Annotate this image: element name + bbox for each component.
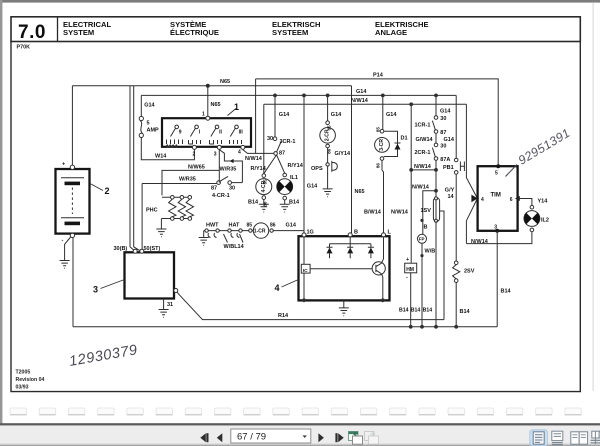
- ground below alternator: [339, 300, 349, 315]
- wire switch pin3 down: [218, 150, 220, 183]
- timer module TIM: [496, 164, 500, 168]
- svg-text:B14: B14: [411, 308, 421, 314]
- switch contact 9: [175, 125, 179, 129]
- svg-text:3: 3: [93, 285, 98, 295]
- svg-text:3: 3: [494, 225, 497, 231]
- svg-text:HM: HM: [406, 267, 414, 273]
- svg-text:3: 3: [214, 151, 217, 157]
- svg-text:AMP: AMP: [147, 128, 160, 134]
- node G14 at 2-CR: [326, 94, 330, 98]
- relay coil 4-CR: [262, 174, 266, 178]
- wire W14 fuse to switch pin 2: [141, 138, 194, 160]
- svg-text:N/W14: N/W14: [391, 210, 409, 216]
- wire IL2 return N/W14: [466, 232, 532, 244]
- ground below 4-CR: [259, 199, 269, 212]
- svg-text:SYSTEEM: SYSTEEM: [272, 28, 308, 37]
- svg-text:N65: N65: [211, 102, 221, 108]
- ground below PHC: [156, 219, 166, 237]
- svg-text:85: 85: [247, 223, 253, 229]
- wire TIM pin 3 to ground bus: [496, 231, 498, 327]
- wire N65 to alternator B terminal: [351, 86, 353, 233]
- toolbar back button: [217, 433, 223, 442]
- node fuel line tap: [434, 189, 438, 193]
- svg-text:N/W14: N/W14: [471, 239, 489, 245]
- svg-text:G14: G14: [444, 137, 455, 143]
- svg-text:ANLAGE: ANLAGE: [375, 28, 407, 37]
- wire switch pin4 to 3CR-1 87: [243, 150, 274, 154]
- svg-text:87A: 87A: [440, 157, 450, 163]
- ground below IL1: [280, 200, 290, 212]
- svg-text:30: 30: [229, 186, 235, 192]
- svg-text:1SV: 1SV: [421, 208, 432, 214]
- contact column 1CR-1 / 2CR-1: [435, 95, 437, 115]
- svg-text:4-CR-1: 4-CR-1: [212, 193, 230, 199]
- svg-text:N/W14: N/W14: [414, 164, 432, 170]
- svg-text:2-CR: 2-CR: [325, 129, 331, 141]
- viewer left edge strip: [0, 0, 2, 424]
- wire B/W14 3-CR to alternator L: [382, 160, 384, 233]
- wire G14 bus: [141, 94, 456, 96]
- battery B1: [72, 236, 74, 327]
- toolbar background: [0, 426, 600, 446]
- svg-text:N/W14: N/W14: [351, 98, 369, 104]
- svg-text:Revision 04: Revision 04: [16, 377, 45, 383]
- heater PHC resistor bank: [161, 197, 190, 218]
- svg-text:D1: D1: [401, 136, 408, 142]
- svg-text:B/W14: B/W14: [364, 210, 382, 216]
- wire HM riser N/W14: [410, 104, 412, 262]
- svg-text:G14: G14: [440, 108, 451, 114]
- wire R/Y14 to 4-CR coil: [264, 155, 277, 174]
- wire N/W65 branch to PHC: [162, 170, 219, 195]
- svg-text:2CR-1: 2CR-1: [415, 150, 431, 156]
- wire G/Y14 PB1 to 2SV: [455, 174, 457, 261]
- svg-text:7.0: 7.0: [18, 22, 46, 43]
- switch contact I: [195, 125, 199, 129]
- svg-text:B14: B14: [248, 200, 259, 206]
- svg-text:6: 6: [510, 197, 513, 203]
- pointer line for 1: [228, 109, 237, 116]
- wire W/R35 drop to starter: [141, 184, 143, 250]
- svg-text:G14: G14: [286, 223, 297, 229]
- ground at HWT line: [199, 231, 209, 246]
- svg-text:9: 9: [179, 130, 182, 136]
- solenoid 1SV: [433, 198, 439, 222]
- diode D1 bypass loop: [384, 131, 398, 156]
- ignition switch SW1 body: [162, 118, 251, 147]
- alternator transistor: [372, 262, 385, 275]
- header divider: [57, 17, 59, 42]
- wire pin3 jog via arrow to contact input: [219, 150, 242, 183]
- toolbar page number field: [231, 429, 311, 443]
- 1SV side tap to R14: [440, 211, 444, 320]
- svg-text:30: 30: [440, 116, 446, 122]
- svg-text:85: 85: [376, 127, 381, 133]
- svg-text:G14: G14: [307, 184, 318, 190]
- svg-text:T2005: T2005: [16, 370, 31, 376]
- toolbar previous page button: [200, 433, 206, 442]
- node HM on bus: [409, 325, 413, 329]
- view mode single page icon selected: [530, 430, 548, 446]
- svg-text:B: B: [424, 224, 428, 230]
- oil pressure switch OPS: [327, 148, 329, 163]
- svg-text:N/W14: N/W14: [245, 156, 263, 162]
- svg-text:HAT: HAT: [229, 223, 241, 229]
- wire G14 to PB1: [455, 95, 457, 158]
- svg-text:14: 14: [448, 194, 455, 200]
- svg-text:PB1: PB1: [443, 165, 454, 171]
- wire N65 top bus: [72, 85, 351, 87]
- svg-text:4-CR: 4-CR: [261, 180, 267, 192]
- svg-text:B14: B14: [289, 200, 300, 206]
- svg-text:N/W65: N/W65: [188, 164, 205, 170]
- wire battery negative to ground: [65, 237, 71, 260]
- node 2SV on bus: [454, 325, 458, 329]
- svg-text:+: +: [406, 257, 409, 263]
- svg-text:G14: G14: [331, 112, 342, 118]
- svg-text:HWT: HWT: [206, 223, 219, 229]
- node FP on bus: [420, 325, 424, 329]
- lamp IL1: [283, 173, 287, 177]
- toolbar previous view icon: [349, 432, 363, 445]
- svg-text:W14: W14: [155, 154, 167, 160]
- starter motor M1: [125, 252, 175, 298]
- svg-text:P14: P14: [373, 73, 384, 79]
- view mode two-page icon: [571, 432, 588, 444]
- svg-text:31: 31: [167, 302, 173, 308]
- wire N/W14 to TIM pin 4 connector: [466, 104, 477, 243]
- svg-text:3-CR: 3-CR: [379, 139, 385, 151]
- svg-text:G/W14: G/W14: [416, 137, 434, 143]
- lamp IL2: [530, 205, 534, 209]
- relay coil 1-CR: [249, 229, 252, 232]
- push button PB1: [454, 158, 458, 162]
- svg-text:IL1: IL1: [290, 175, 298, 181]
- node N65 junction at switch feed: [206, 84, 210, 88]
- toolbar next page button: [335, 433, 337, 442]
- wire to FP drop: [423, 191, 436, 235]
- svg-text:G/Y: G/Y: [445, 187, 455, 193]
- node 1SV on bus: [434, 325, 438, 329]
- alternator IC box: [301, 264, 310, 273]
- svg-text:4: 4: [238, 149, 241, 155]
- svg-text:N65: N65: [355, 189, 365, 195]
- svg-text:87: 87: [279, 151, 285, 157]
- relay contact 4-CR-1: [217, 181, 221, 185]
- ground bus B14: [73, 326, 497, 328]
- thermo switch HWT: [205, 229, 208, 232]
- svg-text:5: 5: [495, 171, 498, 177]
- wire 50(ST) drop to starter: [134, 86, 141, 252]
- svg-text:ÉLECTRIQUE: ÉLECTRIQUE: [170, 28, 219, 37]
- wire 1-CR 86 to 1G riser: [273, 230, 304, 232]
- svg-text:SYSTEM: SYSTEM: [63, 28, 94, 37]
- svg-text:W/BL14: W/BL14: [224, 244, 245, 250]
- wire 1SV to ground bus: [435, 221, 437, 326]
- svg-text:86: 86: [376, 163, 381, 169]
- node G14 at 3-CR: [381, 94, 385, 98]
- svg-text:-: -: [406, 275, 408, 281]
- svg-text:03/93: 03/93: [16, 385, 29, 391]
- svg-text:+: +: [62, 161, 65, 167]
- svg-text:1-CR: 1-CR: [254, 229, 266, 235]
- thermo switch HAT: [228, 229, 231, 232]
- wire N/W14 link line: [411, 169, 436, 171]
- svg-text:IC: IC: [303, 268, 308, 274]
- view mode continuous icon: [552, 431, 563, 444]
- wire 30(B) battery to starter: [130, 86, 135, 252]
- toolbar forward button: [318, 433, 324, 442]
- page right edge faint line: [593, 3, 594, 391]
- relay coil 2-CR: [327, 95, 329, 121]
- svg-text:W/B: W/B: [425, 249, 436, 255]
- svg-text:30: 30: [267, 136, 273, 142]
- svg-text:B: B: [354, 229, 358, 235]
- svg-text:4: 4: [481, 197, 484, 203]
- svg-text:B14: B14: [460, 309, 471, 315]
- svg-text:1: 1: [234, 102, 239, 112]
- wire starter pin 31 to ground: [159, 299, 169, 318]
- thumbnail strip dashes: [10, 408, 581, 415]
- switch pin 1 terminal: [206, 116, 210, 120]
- node N/W14 tap: [434, 168, 438, 172]
- svg-text:-: -: [62, 238, 64, 244]
- svg-text:G14: G14: [386, 112, 397, 118]
- node G14 at 1G riser: [302, 94, 306, 98]
- svg-text:3CR-1: 3CR-1: [280, 139, 296, 145]
- pointer line for 4: [282, 280, 299, 288]
- svg-text:86: 86: [262, 201, 267, 207]
- svg-text:87: 87: [211, 186, 217, 192]
- svg-text:30(B): 30(B): [114, 246, 128, 252]
- toolbar next view icon disabled: [365, 432, 379, 445]
- toolbar separator: [0, 423, 600, 425]
- wire P14 riser from key circuit: [255, 79, 257, 153]
- svg-text:4: 4: [275, 283, 280, 293]
- svg-text:N65: N65: [220, 79, 230, 85]
- svg-text:86: 86: [270, 223, 276, 229]
- svg-text:W/R35: W/R35: [220, 167, 237, 173]
- svg-text:86: 86: [327, 148, 332, 154]
- svg-text:G/Y14: G/Y14: [335, 151, 352, 157]
- pointer line for 2: [90, 184, 103, 191]
- wire G14 riser to alternator 1G: [303, 95, 305, 233]
- pointer line for 3: [101, 280, 125, 289]
- svg-text:R14: R14: [278, 313, 289, 319]
- switch position ticks: [167, 140, 242, 145]
- wire N/W14 bus: [264, 103, 467, 105]
- connector arrow on pin3 jog: [230, 159, 234, 163]
- svg-text:1: 1: [202, 112, 205, 118]
- page outer border frame: [11, 42, 580, 392]
- connector arrow at TIM pin 4: [471, 195, 477, 203]
- wire battery positive riser: [71, 86, 73, 167]
- svg-text:87: 87: [440, 130, 446, 136]
- relay coil 3-CR with diode D1: [382, 95, 384, 129]
- alternator internal diodes: [330, 237, 371, 244]
- svg-text:2: 2: [105, 186, 110, 196]
- svg-text:G14: G14: [144, 103, 155, 109]
- svg-text:B14: B14: [399, 308, 409, 314]
- svg-text:N/W14: N/W14: [412, 185, 430, 191]
- handwritten pointer stroke: [506, 165, 518, 177]
- hour meter HM: [405, 263, 417, 273]
- W/BL14 pointer arrows: [224, 234, 244, 243]
- solenoid 2SV: [454, 261, 458, 265]
- svg-text:IL2: IL2: [541, 218, 549, 224]
- node G14 at contact column: [434, 94, 438, 98]
- svg-text:OPS: OPS: [311, 166, 323, 172]
- svg-text:B14: B14: [423, 308, 433, 314]
- node G14 at 3CR-1: [273, 94, 277, 98]
- wire R14 starter to 1SV: [177, 292, 444, 319]
- svg-text:2: 2: [193, 151, 196, 157]
- svg-text:PHC: PHC: [146, 208, 158, 214]
- contact 3CR-1: [274, 95, 276, 136]
- ground at battery: [60, 261, 70, 269]
- switch contact III: [235, 125, 239, 129]
- switch pin 3 terminal: [217, 145, 221, 149]
- svg-text:R/Y14: R/Y14: [288, 163, 304, 169]
- svg-text:5: 5: [147, 121, 150, 127]
- wire Y14 TIM pin 6 to IL2: [518, 199, 532, 206]
- svg-text:G14: G14: [356, 89, 367, 95]
- switch contact II: [215, 125, 219, 129]
- svg-text:TIM: TIM: [491, 193, 501, 199]
- switch pin 4 terminal: [241, 145, 245, 149]
- switch pin 2 terminal: [192, 145, 196, 149]
- svg-text:III: III: [239, 130, 244, 136]
- svg-text:R/Y14: R/Y14: [251, 166, 267, 172]
- svg-text:FP: FP: [419, 237, 425, 242]
- svg-text:G14: G14: [279, 112, 290, 118]
- svg-text:1234: 1234: [167, 144, 179, 148]
- wire P14 top bus to TIM pin 5: [256, 79, 499, 166]
- node N/W14 at HM riser: [409, 102, 413, 106]
- fuel pump FP: [418, 234, 427, 243]
- wire HWT/HAT line to 1-CR: [204, 230, 253, 232]
- svg-text:1G: 1G: [307, 229, 314, 235]
- alternator A1 with IC regulator: [299, 236, 390, 300]
- svg-text:1CR-1: 1CR-1: [415, 123, 431, 129]
- svg-text:2SV: 2SV: [464, 268, 475, 274]
- view mode two-page continuous icon: [591, 431, 600, 444]
- fuse F1 5 AMP: [140, 95, 142, 116]
- connector arrow at TIM pin 6: [515, 196, 520, 201]
- svg-text:Y14: Y14: [538, 199, 549, 205]
- svg-text:67 / 79: 67 / 79: [237, 432, 266, 443]
- viewer top edge strip: [0, 0, 600, 3]
- wire R/Y14 to IL1: [277, 155, 285, 173]
- svg-text:W/R35: W/R35: [179, 177, 196, 183]
- svg-text:B14: B14: [501, 289, 512, 295]
- svg-text:30: 30: [440, 143, 446, 149]
- wire N/W14 bus left end to 4-CR 85: [263, 104, 265, 173]
- svg-text:50(ST): 50(ST): [144, 246, 161, 252]
- header box: [11, 17, 580, 42]
- svg-text:P70K: P70K: [17, 45, 31, 51]
- wire switch pin 1 feed: [207, 86, 209, 117]
- wire W/R35 to 4-CR-1 contact: [142, 183, 217, 185]
